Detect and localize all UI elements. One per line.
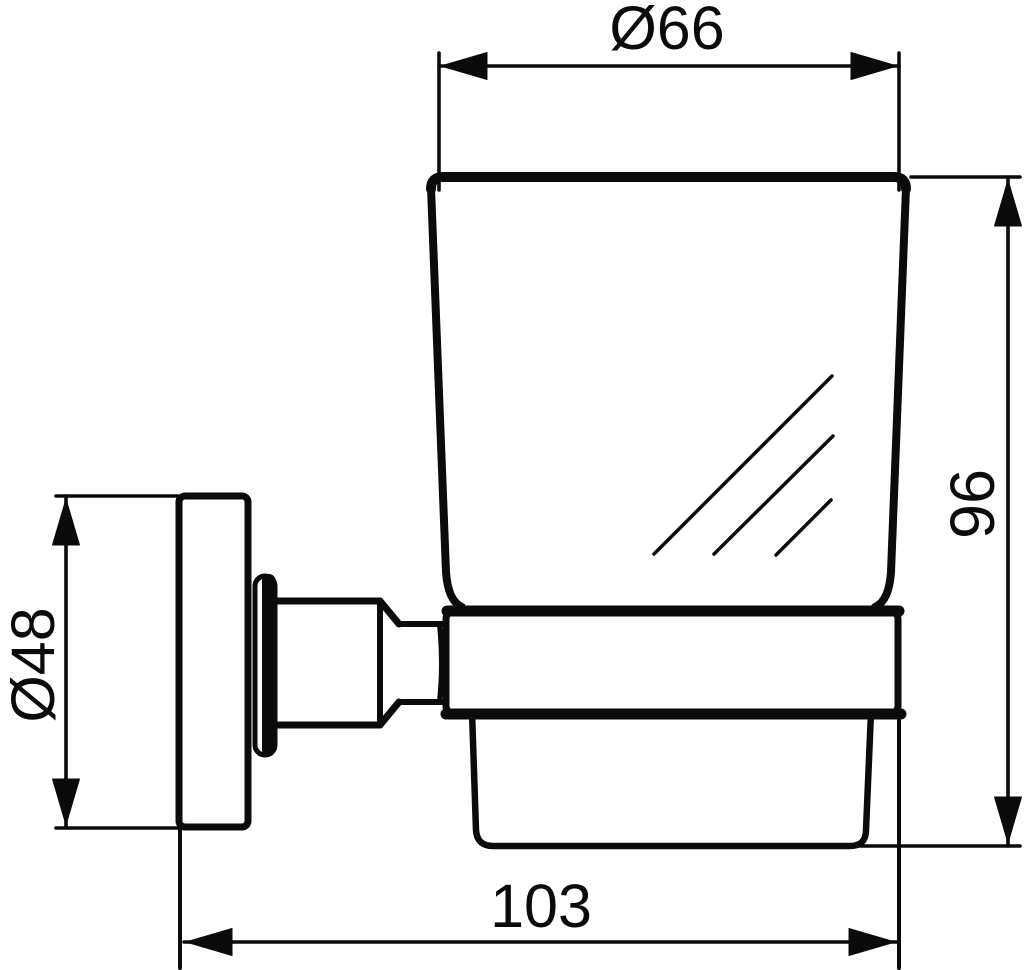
dim 96 reference bottom <box>858 844 1020 848</box>
holder ring body <box>446 611 898 714</box>
dim 96 arrow down <box>995 797 1022 843</box>
glass reflection line 1 <box>654 376 832 554</box>
lower cup (tumbler bottom below ring) <box>472 712 871 846</box>
dim Ø66 arrow left <box>441 53 487 80</box>
arm taper top <box>380 601 399 624</box>
mounting arm cylinder top <box>272 598 380 605</box>
glass tumbler top rim <box>431 177 906 189</box>
dim Ø66 line <box>439 64 899 68</box>
svg-text:103: 103 <box>490 872 592 940</box>
extension line left of wall plate (103 dim) <box>178 824 182 968</box>
arm neck top <box>399 621 447 627</box>
mounting collar behind plate <box>255 576 275 755</box>
dim Ø48 arrow up <box>53 499 80 545</box>
glass tumbler left side <box>431 188 462 607</box>
dim Ø48 arrow down <box>53 779 80 825</box>
extension line right of holder ring (103 dim) <box>897 700 901 968</box>
holder ring bottom edge <box>446 709 901 720</box>
arm taper bottom <box>380 702 399 725</box>
dim 103 arrow left <box>186 929 232 956</box>
mounting arm cylinder bottom <box>272 722 380 729</box>
dim Ø48 extension top <box>56 494 178 498</box>
mounting arm cylinder end <box>377 601 383 725</box>
wall plate <box>179 496 248 827</box>
glass tumbler right side <box>875 188 906 607</box>
mounting collar thick edge <box>262 574 276 756</box>
neck-to-ring joint curve <box>440 625 442 701</box>
dim 96 line <box>1006 177 1010 846</box>
svg-text:Ø48: Ø48 <box>0 607 67 722</box>
holder ring top edge <box>447 606 899 617</box>
dim Ø66 arrow right <box>851 53 897 80</box>
dim Ø66 extension left <box>437 53 441 190</box>
glass reflection line 3 <box>776 500 831 555</box>
dim 96 arrow up <box>995 180 1022 226</box>
dim Ø48 line <box>64 496 68 828</box>
dim 103 arrow right <box>849 929 895 956</box>
svg-text:Ø66: Ø66 <box>609 0 724 62</box>
glass reflection line 2 <box>714 436 833 554</box>
dim Ø66 extension right <box>897 53 901 190</box>
dim Ø48 extension bottom <box>56 826 178 830</box>
dim 103 line <box>184 940 897 944</box>
svg-text:96: 96 <box>938 469 1008 539</box>
dim 96 reference top <box>911 175 1020 179</box>
arm neck bottom <box>399 699 447 705</box>
